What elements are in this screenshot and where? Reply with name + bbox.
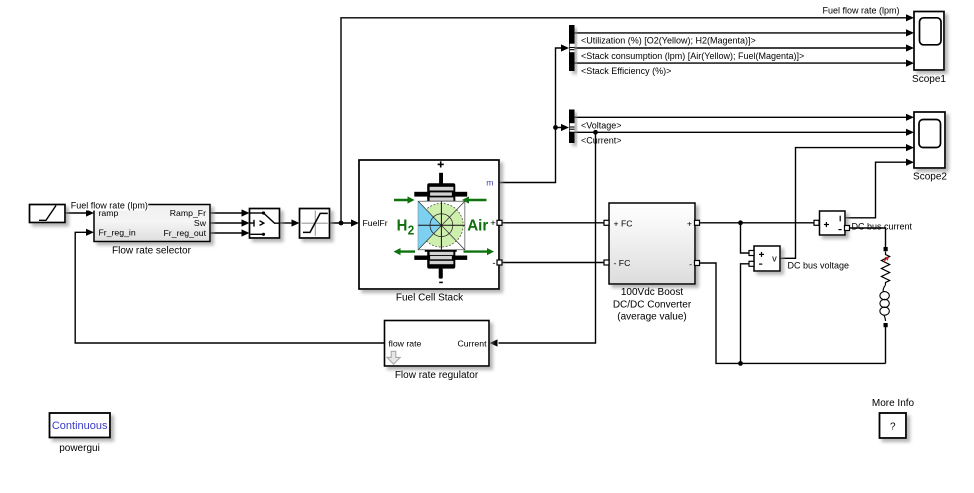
- svg-text:Fuel flow rate (lpm): Fuel flow rate (lpm): [71, 201, 148, 211]
- port square converter minus out: [695, 261, 700, 266]
- wire stack plus to converter plus FC: [502, 222, 604, 224]
- svg-text:(average value): (average value): [617, 311, 686, 322]
- polarity marker: [884, 257, 888, 261]
- wire bus selector1 out1 to Scope1: [575, 32, 908, 34]
- stack icon top stem: [439, 173, 443, 184]
- wire Ramp_Fr selector to switch: [210, 212, 243, 214]
- svg-text:+: +: [687, 218, 692, 228]
- svg-text:Ramp_Fr: Ramp_Fr: [170, 208, 206, 218]
- wire bus selector2 Voltage to Scope2: [575, 116, 908, 118]
- block switch: [250, 209, 280, 239]
- bus selector 2: [569, 110, 575, 144]
- svg-text:Flow rate regulator: Flow rate regulator: [395, 370, 479, 381]
- node junction bottom bus: [738, 361, 743, 366]
- svg-text:Current: Current: [458, 338, 488, 348]
- stack icon bottom green arrows: [394, 248, 495, 255]
- svg-text:DC/DC Converter: DC/DC Converter: [613, 300, 692, 311]
- block Scope1: [914, 12, 944, 71]
- stack icon bottom electrode: [414, 250, 467, 269]
- svg-text:<Voltage>: <Voltage>: [581, 121, 622, 131]
- svg-text:?: ?: [890, 421, 896, 432]
- port square RL bottom: [884, 323, 888, 327]
- wire converter plus output to current measurement: [700, 222, 815, 224]
- block Fuel Cell Stack: [359, 160, 499, 289]
- block current measurement: [820, 211, 846, 235]
- wire Sw selector to switch: [210, 222, 243, 224]
- stack icon membrane square: [418, 201, 465, 249]
- inductor L: [883, 285, 885, 292]
- regulator link arrow icon: [387, 351, 400, 364]
- port square current meas minus: [845, 226, 850, 231]
- stack icon minus terminal: [439, 281, 443, 283]
- svg-text:-: -: [492, 258, 495, 269]
- stack icon top electrode: [414, 183, 467, 202]
- svg-text:Scope1: Scope1: [912, 74, 946, 85]
- svg-text:Fuel flow rate (lpm): Fuel flow rate (lpm): [823, 6, 900, 16]
- svg-text:Continuous: Continuous: [52, 420, 108, 432]
- port square stack plus: [497, 220, 502, 225]
- wire current measurement minus to RL load: [850, 228, 886, 247]
- block subsystem Flow rate selector: [94, 205, 210, 242]
- port square converter minus FC: [604, 260, 609, 265]
- node junction m wire to bus selector 2: [553, 125, 558, 130]
- svg-text:Fuel Cell Stack: Fuel Cell Stack: [396, 293, 464, 304]
- bus selector 1: [569, 25, 575, 71]
- port square voltage meas plus: [749, 251, 754, 256]
- port square converter plus out: [695, 220, 700, 225]
- node junction at saturation output: [339, 221, 344, 226]
- svg-text:v: v: [772, 254, 777, 264]
- stack icon H2 text: [397, 217, 415, 237]
- wire stack minus to converter minus FC: [502, 262, 604, 264]
- wire Fr_reg_out selector to switch: [210, 232, 243, 234]
- block Flow rate regulator: [385, 321, 490, 367]
- block 100Vdc Boost DC/DC Converter: [609, 203, 695, 284]
- svg-text:<Stack consumption (lpm) [Air(: <Stack consumption (lpm) [Air(Yellow); F…: [581, 51, 804, 61]
- port square stack minus: [497, 260, 502, 265]
- svg-text:Scope2: Scope2: [913, 172, 947, 183]
- port square voltage meas minus: [749, 261, 754, 266]
- svg-text:H: H: [397, 217, 408, 235]
- svg-text:Fr_reg_out: Fr_reg_out: [164, 228, 207, 238]
- port square RL top: [884, 247, 888, 251]
- stack icon plus terminal: [438, 161, 444, 167]
- RL load branch: [880, 247, 890, 327]
- block ramp source: [30, 205, 66, 223]
- wire regulator flow rate loop back to Fr_reg_in: [75, 232, 384, 343]
- svg-text:2: 2: [408, 223, 415, 237]
- resistor R: [881, 252, 889, 286]
- svg-text:DC bus voltage: DC bus voltage: [788, 261, 850, 271]
- svg-text:Sw: Sw: [194, 218, 207, 228]
- node junction on Current wire: [593, 130, 598, 135]
- wire Current branch down to Flow rate regulator: [499, 132, 596, 343]
- wire junction to voltage measurement plus: [741, 223, 750, 253]
- svg-text:+: +: [490, 218, 496, 229]
- svg-text:More Info: More Info: [872, 398, 915, 409]
- svg-text:<Utilization (%) [O2(Yellow);: <Utilization (%) [O2(Yellow); H2(Magenta…: [581, 36, 756, 46]
- wire bus selector1 out3 to Scope1: [575, 62, 908, 64]
- svg-text:powergui: powergui: [59, 443, 100, 454]
- wire saturation to Fuel Cell Stack FuelFr: [330, 222, 353, 224]
- stack icon bottom stem: [439, 268, 443, 278]
- port square converter plus FC: [604, 220, 609, 225]
- node label Fuel flow rate (lpm): [70, 200, 149, 211]
- wire voltage measurement minus down to bottom bus: [741, 264, 750, 364]
- svg-text:- FC: - FC: [614, 258, 631, 268]
- stack icon top green arrows: [394, 196, 487, 203]
- svg-text:<Current>: <Current>: [581, 135, 622, 145]
- svg-text:flow rate: flow rate: [389, 338, 422, 348]
- block voltage measurement: [754, 246, 780, 271]
- node junction DC bus plus: [738, 220, 743, 225]
- wire current measurement i output to Scope2: [845, 162, 907, 218]
- wire ramp to Flow rate selector: [66, 212, 88, 214]
- svg-text:Flow rate selector: Flow rate selector: [112, 246, 192, 257]
- block powergui: [50, 413, 111, 438]
- wire bottom bus: [700, 263, 886, 363]
- svg-text:<Stack Efficiency (%)>: <Stack Efficiency (%)>: [581, 66, 671, 76]
- svg-text:-: -: [689, 259, 692, 269]
- wire voltage measurement v output to Scope2: [780, 148, 907, 259]
- wire branch up to Scope1 (Fuel flow rate): [341, 18, 907, 223]
- wire bus selector2 Current to Scope2: [575, 131, 908, 133]
- svg-text:Fr_reg_in: Fr_reg_in: [99, 228, 136, 238]
- wire bus selector1 out2 to Scope1: [575, 47, 908, 49]
- wire switch to saturation: [280, 222, 293, 224]
- svg-text:m: m: [486, 178, 493, 188]
- svg-text:Air: Air: [467, 217, 488, 234]
- svg-text:100Vdc Boost: 100Vdc Boost: [621, 287, 683, 298]
- svg-text:FuelFr: FuelFr: [363, 218, 388, 228]
- port square current meas input: [814, 220, 819, 225]
- wire RL load bottom to bus: [885, 327, 887, 363]
- block Scope2: [914, 112, 945, 168]
- block saturation: [300, 209, 330, 239]
- wire m output of stack to bus selectors: [500, 48, 563, 183]
- svg-text:DC bus current: DC bus current: [852, 222, 913, 232]
- svg-text:+ FC: + FC: [614, 218, 633, 228]
